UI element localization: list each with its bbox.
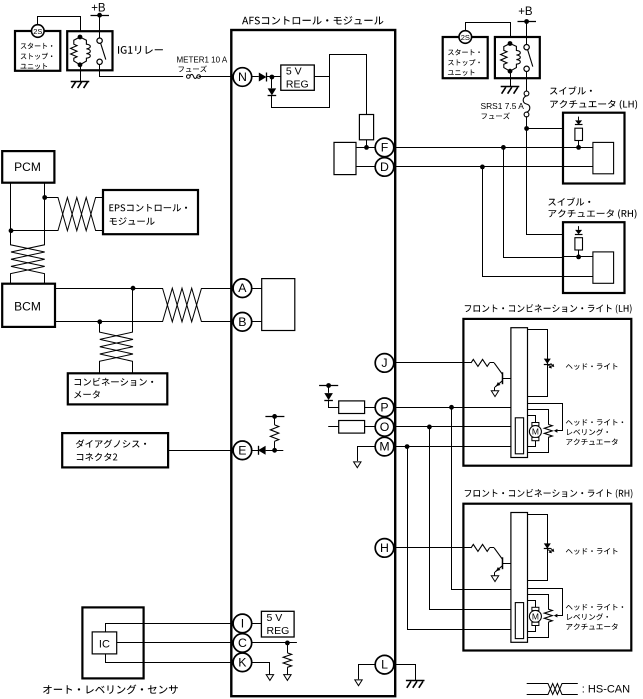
junction meter CAN-H [131, 286, 136, 291]
wire motor bottom (RH) [528, 626, 536, 632]
junction coil top [78, 35, 83, 40]
svg-text:5 V: 5 V [267, 612, 283, 624]
label swivel LH line2 [550, 100, 637, 109]
label swivel RH line1 [548, 197, 590, 205]
wire +B to switch R [526, 22, 528, 45]
stub wire R3 left [328, 426, 339, 428]
headlight connector strip (LH) [511, 328, 528, 458]
svg-text:M: M [379, 440, 389, 454]
switch contact top [97, 38, 102, 43]
wire pin C stub [252, 642, 297, 644]
pin B [233, 313, 252, 332]
wire O branch to light RH [430, 427, 511, 610]
junction coil bottom R [508, 69, 513, 74]
ground (relay coil right) [501, 86, 520, 88]
label AFS control module [242, 16, 383, 25]
wire R1 to F node [366, 140, 368, 148]
wire D branch to swivel RH [483, 167, 564, 277]
wire pin M to light LH [394, 446, 511, 448]
svg-text:P: P [380, 400, 388, 414]
leveling actuator connector (LH) [515, 418, 523, 454]
label start-stop unit R line1 [448, 49, 480, 56]
transistor Q (RH) [490, 547, 495, 549]
svg-text:H: H [380, 541, 389, 555]
label leveling actuator (RH) line3 [566, 623, 617, 630]
pin H [375, 539, 394, 558]
svg-text:: HS-CAN: : HS-CAN [582, 684, 630, 696]
wire diode to resistor P [329, 400, 339, 407]
sensor IC box [92, 632, 117, 654]
junction P branch [449, 405, 454, 410]
leveling motor M (LH) [528, 416, 536, 423]
wire pin J to light LH [394, 362, 471, 364]
wire to zener [271, 77, 273, 88]
svg-text:2S: 2S [461, 33, 470, 42]
battery tap (P driver) [319, 385, 338, 387]
pin P [375, 398, 394, 417]
label meter line1 [75, 378, 154, 386]
wire BCM to pin A with twist [55, 288, 202, 322]
svg-text:K: K [238, 655, 247, 669]
signal ground (pin C) [284, 675, 291, 681]
wire diode to pullup [266, 450, 284, 452]
wire coil R to ground [510, 71, 512, 86]
svg-text:REG: REG [286, 78, 309, 90]
label auto leveling sensor [43, 685, 178, 695]
base resistor (RH) [471, 544, 490, 551]
junction +B tap (left) [97, 13, 102, 18]
pin I [233, 614, 252, 633]
emitter (RH) [495, 566, 503, 573]
wire switch R to SRS1 fuse [526, 72, 528, 92]
swivel connector block (RH) [593, 252, 614, 283]
EPS control module box [103, 190, 198, 234]
connector 2S (right) [459, 31, 472, 44]
pin E [233, 441, 252, 460]
headlight LED (LH) [544, 359, 551, 364]
svg-text:+B: +B [518, 6, 533, 18]
svg-text:2S: 2S [33, 27, 42, 36]
svg-text:L: L [381, 658, 388, 672]
emitter (LH) [495, 381, 503, 388]
pulldown resistor (pin C) [287, 643, 289, 653]
swivel actuator box (LH) [563, 113, 625, 184]
battery tap (pin E pullup) [265, 416, 284, 418]
label headlight (LH) [566, 363, 618, 370]
label swivel RH line2 [549, 209, 637, 218]
wire PCM CAN-H [44, 183, 46, 198]
junction O branch [427, 425, 432, 430]
IG1 relay coil [71, 37, 80, 65]
wire supply to swivel RH [527, 129, 564, 235]
wire IC to pin I [106, 624, 234, 632]
wire collector to strip (LH) [503, 378, 511, 380]
junction E pullup [272, 448, 277, 453]
relay coil (right) [501, 44, 510, 72]
label diagnosis line1 [76, 439, 146, 448]
swivel resistor (LH) [575, 128, 583, 140]
relay box (right) [495, 37, 540, 78]
svg-text:D: D [380, 160, 389, 174]
svg-text:REG: REG [267, 625, 290, 637]
wire IC to pin K [106, 654, 234, 663]
label start-stop unit line2 [21, 53, 53, 60]
wire pin M to ground [358, 447, 376, 462]
signal ground (emitter RH) [491, 576, 498, 582]
junction C pulldown [285, 641, 290, 646]
resistor R1 (internal) [359, 115, 373, 140]
wire block to pin F [356, 147, 375, 149]
wire pin L to signal ground [359, 665, 376, 680]
headlight lamp circuit (RH) [528, 515, 548, 581]
wire pin O to light LH [394, 426, 511, 428]
auto leveling sensor box [82, 607, 143, 678]
junction CAN-L EPS [9, 228, 14, 233]
combination meter box [68, 373, 168, 404]
wire tap to diode [328, 386, 330, 393]
pin A [233, 279, 252, 298]
junction M branch [405, 444, 410, 449]
label leveling actuator (LH) line1 [566, 419, 623, 426]
svg-text:+B: +B [91, 3, 106, 15]
label front combination light RH [465, 489, 633, 499]
wire 2S-R to relay coil [466, 23, 511, 44]
twisted pair PCM-BCM [11, 198, 45, 284]
swivel diode (LH) [578, 117, 580, 121]
wire pin F to swivel LH [394, 147, 563, 149]
wire IC to pin C [117, 642, 233, 644]
wire inside swivel (lower) [563, 166, 593, 168]
junction swivel resistor [576, 255, 581, 260]
transistor Q (LH) [490, 362, 495, 364]
wire B to block [252, 321, 262, 323]
wire 2S to relay coil [38, 17, 81, 38]
twisted pair BCM-meter [100, 288, 133, 373]
potentiometer (LH) [528, 410, 549, 425]
junction swivel supply [524, 126, 529, 131]
wire +B to switch [99, 15, 101, 38]
label swivel LH line1 [550, 86, 592, 94]
signal ground (emitter LH) [491, 391, 498, 397]
label front combination light LH [465, 304, 632, 314]
label EPS line2 [110, 217, 155, 225]
internal block (F/D driver) [334, 142, 356, 174]
wire fuse to pin N [199, 76, 234, 78]
start-stop unit box (left) [15, 31, 60, 71]
wire E to diode [252, 450, 258, 452]
label headlight (RH) [566, 548, 618, 555]
junction +B tap (right) [524, 19, 529, 24]
wire pin K to ground [252, 663, 270, 675]
junction battery tap E [272, 414, 277, 419]
wire zener return loop [272, 55, 367, 115]
pullup resistor (pin E) [270, 425, 278, 441]
swivel actuator box (RH) [563, 222, 625, 293]
svg-text:M: M [532, 427, 539, 437]
headlight connector strip (RH) [511, 513, 528, 643]
leveling actuator connector (RH) [515, 603, 523, 639]
wire R2 to pin P [365, 407, 376, 409]
potentiometer (RH) [528, 595, 549, 610]
svg-text:N: N [238, 70, 247, 84]
label leveling actuator (LH) line2 [567, 429, 608, 436]
wire inside swivel (upper) [563, 256, 593, 258]
junction after diode [270, 75, 275, 80]
label start-stop unit R line2 [448, 59, 480, 66]
front combination light box (LH) [463, 319, 631, 466]
label EPS line1 [109, 204, 187, 212]
pin L [375, 655, 394, 674]
label start-stop unit line1 [21, 43, 53, 50]
switch contact bottom R [524, 66, 529, 71]
pin D [375, 158, 394, 177]
switch contact top R [524, 45, 529, 50]
IG1 relay box [67, 31, 112, 70]
switch contact bottom [97, 59, 102, 64]
label IG1 relay [118, 46, 163, 54]
wire pot bottom (RH) [528, 622, 549, 637]
svg-text:J: J [381, 356, 387, 370]
svg-text:SRS1 7.5 A: SRS1 7.5 A [481, 101, 525, 111]
wiper feedback wire (LH) [528, 404, 563, 431]
wire switch to METER1 fuse [100, 65, 184, 77]
pin C [233, 634, 252, 653]
wire inside swivel (upper) [563, 147, 593, 149]
svg-text:C: C [238, 636, 247, 650]
wire swivel resistor to node [578, 141, 580, 148]
pin F [375, 138, 394, 157]
diode D3 (pin E) [258, 446, 260, 455]
junction coil top R [508, 41, 513, 46]
wire pin H to light RH [394, 547, 471, 549]
headlight lamp circuit (LH) [528, 330, 548, 397]
svg-text:B: B [238, 315, 246, 329]
pin J [375, 354, 394, 373]
internal CAN block [262, 279, 295, 331]
wire block to pin D [356, 166, 375, 168]
base resistor (LH) [471, 359, 490, 366]
chassis ground (pin L) [406, 680, 425, 682]
wire supply to swivel LH [527, 128, 563, 130]
svg-text:IC: IC [99, 638, 110, 650]
pin O [375, 418, 394, 437]
wire pot bottom (LH) [528, 437, 549, 452]
wire M branch to light RH [408, 447, 511, 630]
wire SRS1 fuse to node [526, 116, 528, 128]
junction swivel resistor [576, 145, 581, 150]
svg-text:I: I [241, 616, 244, 630]
junction F branch [501, 145, 506, 150]
wire BCM to pin B with twist [55, 288, 202, 322]
label start-stop unit line3 [21, 63, 48, 69]
pin M [375, 437, 394, 456]
diode D4 (P driver) [324, 393, 333, 400]
junction coil bottom [78, 62, 83, 67]
junction battery tap P [326, 383, 331, 388]
AFS control module box [231, 30, 395, 696]
legend twisted pair symbol [527, 684, 578, 695]
wire diode to 5V REG [266, 76, 280, 78]
wiper feedback wire (RH) [528, 589, 563, 616]
diode D1 (series) [259, 73, 267, 82]
label leveling actuator (LH) line3 [566, 439, 617, 446]
pin N [233, 68, 252, 87]
junction D branch [480, 165, 485, 170]
wire motor bottom (LH) [528, 441, 536, 447]
wire swivel resistor to node [578, 250, 580, 257]
wire R3 to pin O [365, 426, 376, 428]
label start-stop unit R line3 [448, 69, 475, 75]
resistor R2 (pin P) [339, 401, 365, 414]
wire inside swivel (lower) [563, 276, 593, 278]
svg-text:F: F [381, 140, 389, 154]
PCM box [2, 151, 54, 183]
signal ground (pin K) [266, 675, 273, 681]
label meter line2 [74, 390, 100, 398]
5V regulator box (top) [281, 65, 315, 90]
label leveling actuator (RH) line1 [566, 604, 623, 611]
svg-text:A: A [238, 281, 247, 295]
wire N to diode [252, 76, 259, 78]
wire diagnosis to pin E [168, 450, 233, 452]
label leveling actuator (RH) line2 [567, 613, 608, 620]
junction meter CAN-L [97, 319, 102, 324]
label diagnosis line2 [77, 453, 118, 461]
swivel diode (RH) [578, 226, 580, 230]
front combination light box (RH) [463, 504, 631, 651]
wire PCM CAN-L [10, 183, 12, 231]
wire 5V REG output [314, 76, 330, 78]
ground (IG1 relay coil) [71, 81, 90, 83]
start-stop unit box (right) [443, 37, 488, 78]
wire pin D to swivel LH [394, 166, 563, 168]
connector 2S (left) [32, 25, 45, 38]
svg-text:M: M [532, 611, 539, 621]
svg-text:E: E [238, 443, 246, 457]
svg-text:O: O [380, 420, 390, 434]
pin K [233, 653, 252, 672]
BCM box [2, 284, 55, 327]
svg-text:METER1 10 A: METER1 10 A [177, 56, 228, 65]
zener diode D2 (down) [268, 88, 277, 95]
swivel resistor (RH) [575, 238, 583, 250]
wire coil to ground [80, 65, 82, 81]
svg-text:PCM: PCM [14, 160, 41, 174]
diagnosis connector 2 box [62, 433, 168, 467]
headlight LED (RH) [544, 543, 551, 548]
junction CAN-H EPS [42, 195, 47, 200]
twisted pair PCM-EPS [45, 198, 103, 231]
signal ground (pin L) [355, 680, 362, 686]
signal ground (pin M) [354, 462, 361, 468]
wire pin P to light LH [394, 407, 511, 409]
svg-text:5 V: 5 V [286, 66, 302, 78]
junction R1/F [364, 145, 369, 150]
wire collector to strip (RH) [503, 563, 511, 565]
wire F branch to swivel RH [504, 147, 564, 257]
leveling motor M (RH) [528, 601, 536, 608]
wire P branch to light RH [452, 407, 511, 589]
swivel connector block (LH) [593, 142, 614, 173]
wire A to block [252, 288, 262, 290]
svg-text:BCM: BCM [14, 299, 41, 313]
wire pin I to 5V REG [252, 623, 262, 625]
wire pin L to chassis ground [394, 665, 416, 681]
